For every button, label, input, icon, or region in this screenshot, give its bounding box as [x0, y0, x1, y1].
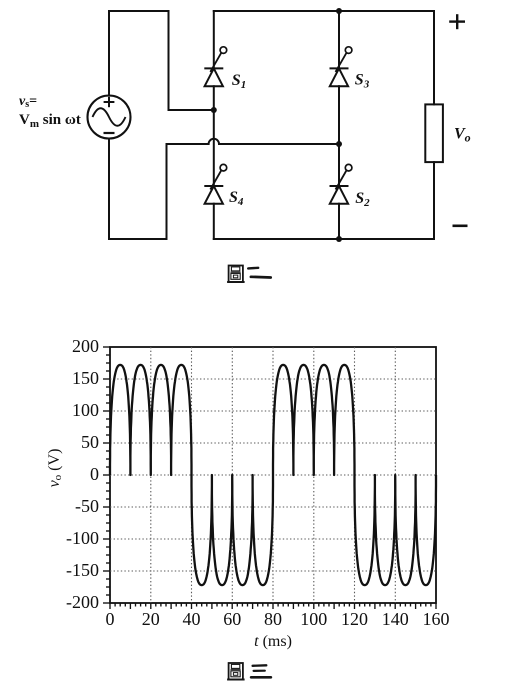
svg-text:80: 80 — [264, 609, 282, 629]
chart horizontal gridlines — [110, 379, 436, 571]
svg-text:-150: -150 — [66, 560, 99, 580]
svg-text:vo (V): vo (V) — [46, 449, 64, 488]
svg-text:S2: S2 — [355, 190, 370, 209]
chart x-axis ticks — [110, 603, 436, 609]
svg-text:Vm sin ωt: Vm sin ωt — [19, 112, 81, 130]
wire: bridge top rail — [214, 10, 434, 12]
svg-text:-50: -50 — [75, 496, 99, 516]
svg-text:-200: -200 — [66, 592, 99, 612]
wire: right leg upper — [338, 11, 340, 68]
node A junction dot — [211, 107, 217, 113]
svg-text:Vo: Vo — [454, 126, 471, 145]
resistor load Vo — [425, 104, 443, 162]
caption figure 2 glyph tu — [227, 266, 245, 283]
node bottom junction dot — [336, 236, 342, 242]
chart vertical gridlines — [151, 347, 395, 603]
AC source VS circle — [88, 96, 131, 139]
chart y-axis ticks — [103, 347, 110, 603]
chart plot border — [110, 347, 436, 603]
wire: source to node B with crossover hop — [167, 139, 340, 144]
wire: source top rail — [109, 10, 169, 12]
node B junction dot — [336, 141, 342, 147]
caption figure 3 glyph san — [251, 665, 271, 677]
svg-text:20: 20 — [142, 609, 160, 629]
wire: load bottom — [433, 162, 435, 239]
svg-text:200: 200 — [72, 336, 99, 356]
thyristor S3 — [330, 47, 352, 86]
svg-text:120: 120 — [341, 609, 368, 629]
output minus terminal — [453, 225, 468, 228]
wire: bridge bottom rail — [214, 238, 434, 240]
wire: source bottom vertical — [108, 139, 110, 240]
svg-text:100: 100 — [300, 609, 327, 629]
wire: upper tap vertical — [168, 11, 170, 110]
wire: source top vertical — [108, 11, 110, 96]
svg-text:100: 100 — [72, 400, 99, 420]
svg-text:vs=: vs= — [19, 94, 37, 110]
thyristor S1 — [204, 47, 226, 86]
svg-text:0: 0 — [90, 464, 99, 484]
svg-text:S1: S1 — [232, 72, 246, 91]
svg-text:60: 60 — [223, 609, 241, 629]
thyristor S2 — [330, 164, 352, 203]
svg-text:t (ms): t (ms) — [254, 633, 292, 650]
svg-text:160: 160 — [423, 609, 450, 629]
wire: load top — [433, 11, 435, 104]
AC source plus sign — [104, 97, 115, 107]
wire: source bottom horizontal — [109, 238, 167, 240]
wire: left leg middle — [213, 86, 215, 186]
wire: mid-left riser — [166, 144, 168, 239]
svg-text:50: 50 — [81, 432, 99, 452]
caption figure 2 glyph er — [248, 268, 271, 278]
svg-text:-100: -100 — [66, 528, 99, 548]
wire: left leg lower — [213, 204, 215, 239]
svg-text:S4: S4 — [229, 189, 244, 208]
AC source sine symbol — [93, 108, 126, 126]
svg-text:150: 150 — [72, 368, 99, 388]
wire: upper tap horizontal to node A — [169, 109, 214, 111]
svg-text:S3: S3 — [355, 72, 370, 91]
svg-text:40: 40 — [183, 609, 201, 629]
caption figure 3 glyph tu — [227, 663, 245, 680]
svg-text:140: 140 — [382, 609, 409, 629]
thyristor S4 — [204, 164, 226, 203]
wire: right leg middle — [338, 86, 340, 186]
node top junction dot — [336, 8, 342, 14]
wire: right leg lower — [338, 204, 340, 239]
AC source minus sign — [104, 132, 115, 134]
svg-text:0: 0 — [106, 609, 115, 629]
output plus terminal — [449, 14, 465, 29]
wire: left leg upper — [213, 11, 215, 68]
waveform curve vo — [110, 365, 436, 585]
